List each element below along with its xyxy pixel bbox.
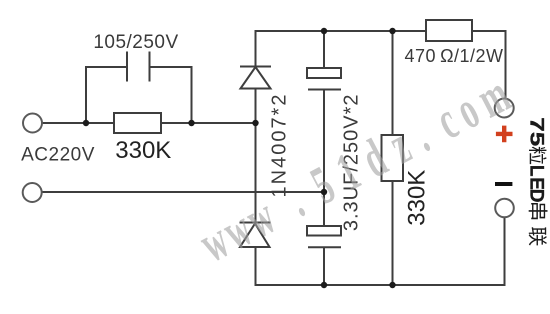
svg-text:5: 5: [526, 132, 547, 147]
svg-text:L: L: [526, 165, 547, 177]
svg-text:330K: 330K: [403, 170, 430, 226]
svg-text:D: D: [526, 189, 547, 203]
svg-text:7: 7: [526, 117, 547, 132]
svg-text:AC220V: AC220V: [21, 145, 95, 166]
svg-text:105/250V: 105/250V: [93, 32, 178, 53]
svg-text:330K: 330K: [115, 137, 171, 164]
